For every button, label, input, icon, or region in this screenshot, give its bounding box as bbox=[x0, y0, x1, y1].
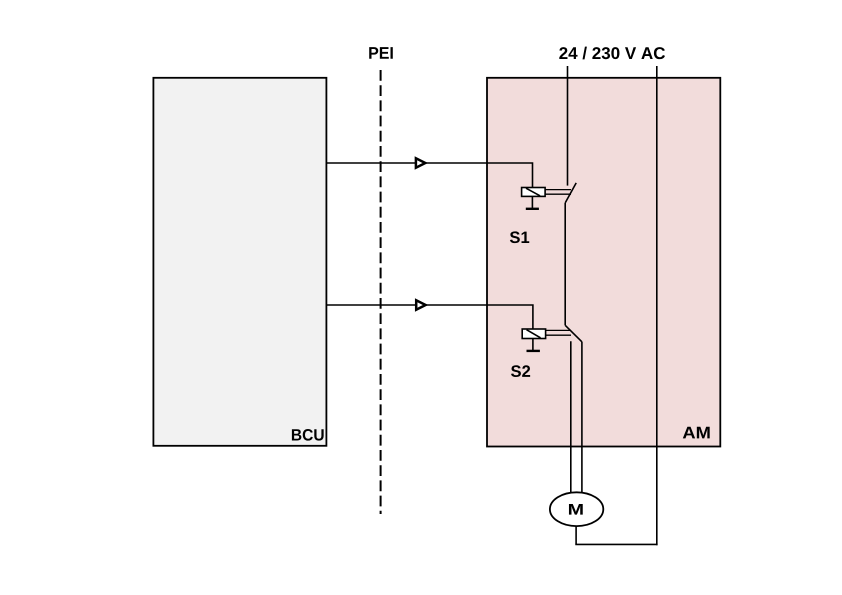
wire S1 to S2 bbox=[564, 203, 566, 325]
label AM bbox=[683, 427, 710, 439]
wire supply left vertical bbox=[567, 66, 569, 186]
label 24 / 230 V AC bbox=[559, 47, 665, 60]
label S2 bbox=[511, 365, 530, 377]
contact lever S2 (closed to motor) bbox=[565, 325, 582, 342]
block BCU bbox=[153, 78, 326, 446]
motor M bbox=[550, 492, 603, 526]
wire BCU to S2 coil bbox=[326, 305, 533, 330]
dashed boundary PEI bbox=[380, 70, 382, 514]
wire motor bottom lead bbox=[575, 510, 577, 544]
arrowhead on S2 control wire bbox=[416, 300, 425, 309]
contact lever S1 (normally open) bbox=[565, 183, 576, 203]
wire motor return bottom horizontal bbox=[575, 543, 657, 545]
label BCU bbox=[292, 429, 324, 441]
label PEI bbox=[369, 47, 393, 59]
coil S2 ground stub bbox=[527, 339, 540, 351]
relay coil S2 bbox=[522, 329, 545, 339]
coil S1 ground stub bbox=[526, 196, 539, 208]
label S1 bbox=[510, 231, 529, 243]
wire BCU to S1 coil bbox=[326, 163, 532, 188]
wire S2 lever to motor (right lead) bbox=[581, 342, 583, 505]
wire supply right vertical (return) bbox=[656, 66, 658, 545]
block AM bbox=[487, 78, 720, 447]
wire motor left lead (open contact) bbox=[570, 341, 572, 505]
relay coil S1 bbox=[522, 188, 546, 197]
mechanical link S2 bbox=[546, 330, 571, 335]
arrowhead on S1 control wire bbox=[416, 158, 425, 167]
mechanical link S1 bbox=[545, 190, 571, 195]
